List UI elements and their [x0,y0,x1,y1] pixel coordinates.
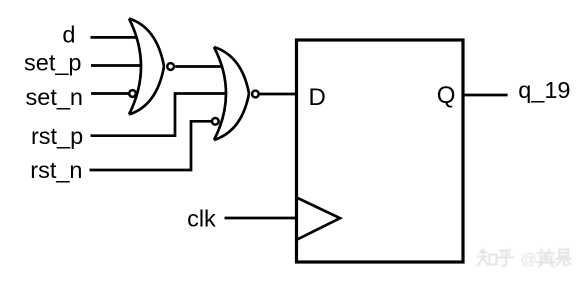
svg-text:Q: Q [437,82,456,109]
svg-text:set_n: set_n [26,84,84,110]
svg-text:rst_n: rst_n [30,157,82,183]
svg-text:q_19: q_19 [518,77,570,103]
svg-text:@: @ [521,252,537,269]
svg-text:clk: clk [187,205,216,231]
svg-text:rst_p: rst_p [31,123,83,149]
svg-text:set_p: set_p [24,50,82,76]
svg-text:d: d [62,21,75,47]
svg-text:D: D [309,84,326,111]
